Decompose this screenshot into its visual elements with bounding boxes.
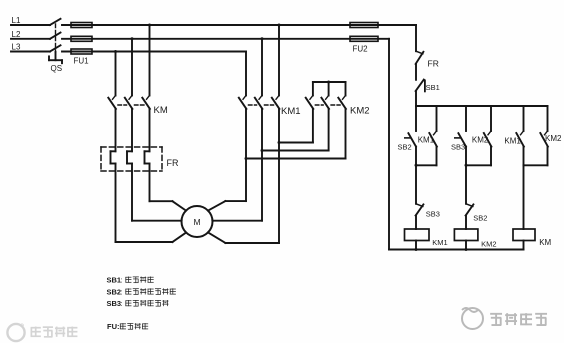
svg-text:SB1: SB1 (426, 83, 440, 92)
svg-text:KM1: KM1 (418, 135, 435, 144)
svg-text:FU1: FU1 (74, 57, 90, 66)
svg-text:SB1: SB1 (107, 276, 122, 285)
svg-text:KM2: KM2 (545, 134, 562, 143)
svg-text:o: o (20, 322, 24, 329)
svg-text:KM: KM (539, 238, 551, 247)
svg-text:SB3: SB3 (426, 209, 440, 218)
svg-text:FU2: FU2 (353, 45, 369, 54)
svg-text:KM1: KM1 (432, 238, 447, 247)
svg-text:KM: KM (154, 105, 168, 116)
svg-text:KM2: KM2 (472, 135, 489, 144)
svg-text:L3: L3 (12, 43, 21, 52)
svg-text:KM2: KM2 (350, 106, 370, 117)
svg-text:KM1: KM1 (281, 106, 301, 117)
svg-text:SB3: SB3 (107, 299, 122, 308)
svg-text:SB3: SB3 (451, 143, 465, 152)
svg-text:FR: FR (428, 59, 439, 69)
svg-text:L2: L2 (12, 30, 21, 39)
svg-text:M: M (193, 217, 200, 227)
svg-text::: : (121, 287, 123, 296)
svg-text:SB2: SB2 (473, 214, 487, 223)
svg-text:KM1: KM1 (504, 136, 521, 145)
svg-text:KM2: KM2 (481, 240, 496, 249)
svg-text:FU:: FU: (107, 322, 120, 331)
svg-text:QS: QS (51, 64, 63, 73)
svg-text:FR: FR (167, 158, 179, 168)
svg-text:L1: L1 (12, 16, 21, 25)
svg-text:SB2: SB2 (107, 287, 122, 296)
svg-text::: : (121, 299, 123, 308)
svg-text:SB2: SB2 (398, 142, 412, 151)
svg-text::: : (121, 276, 123, 285)
